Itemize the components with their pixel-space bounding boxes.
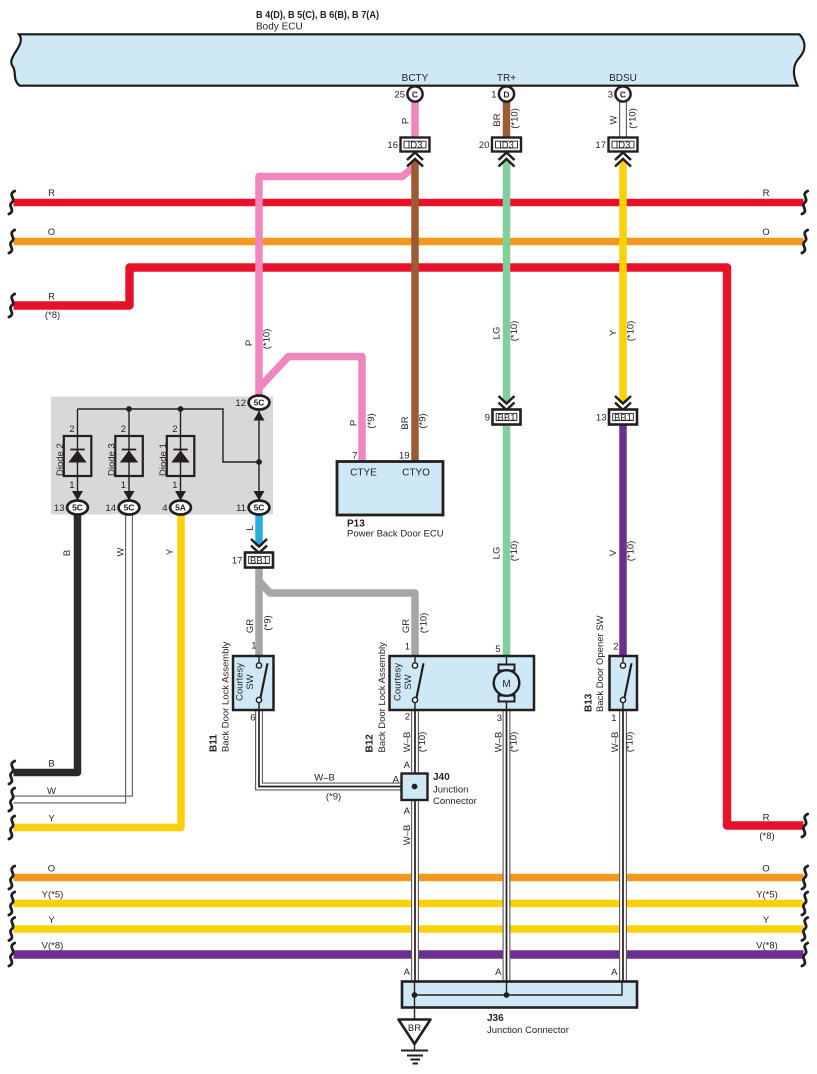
label O bottom right: [762, 864, 769, 875]
svg-text:9: 9: [485, 413, 490, 424]
wire W-B (*10) from B13 pin1 to J36: [620, 710, 627, 982]
arrow into connector 14-5C: [124, 491, 135, 501]
svg-text:(*10): (*10): [626, 541, 637, 562]
break symbol V(*8) left: [9, 943, 15, 966]
break symbol O bottom right: [802, 866, 808, 889]
svg-text:Connector: Connector: [433, 796, 477, 807]
svg-text:11: 11: [236, 503, 246, 514]
wire LG from ID3 pin20 to BB1 pin9: [503, 161, 511, 403]
break symbol Y(*5) right: [802, 892, 808, 915]
svg-text:GR: GR: [245, 619, 256, 633]
label P (*9) on branch to CTYE: [349, 413, 378, 428]
svg-text:(*9): (*9): [366, 413, 377, 428]
svg-text:1: 1: [172, 480, 177, 491]
label Y(*5) bottom right: [756, 890, 778, 901]
wire W-B (*10) from motor pin3 to J36: [503, 710, 510, 982]
wire W-B (*9) from B11 pin6 to J40: [256, 710, 402, 790]
arrow into connector 11-5C: [254, 491, 265, 501]
svg-text:Y: Y: [608, 329, 619, 336]
svg-text:M: M: [502, 679, 510, 690]
label BR (*9) on wire to CTYO: [400, 413, 429, 429]
connector 12 (5C): [235, 396, 269, 410]
break symbol O bus left: [9, 230, 15, 253]
wire LG from BB1 pin9 to motor pin5: [503, 425, 511, 658]
wire Y(*5) bus: [14, 900, 804, 908]
diode D1 (Diode 1): [158, 424, 194, 491]
svg-text:BR: BR: [408, 1023, 421, 1034]
svg-text:7: 7: [352, 451, 357, 462]
label Y on yellow riser: [165, 548, 176, 555]
connector 13 (5C): [54, 501, 88, 515]
svg-text:5C: 5C: [254, 398, 265, 408]
wire R bus (top): [14, 199, 804, 207]
svg-text:Junction: Junction: [433, 785, 468, 796]
wire L from connector 11-5C to BB1 pin17: [255, 513, 263, 546]
svg-text:J36: J36: [487, 1013, 504, 1024]
svg-text:W–B: W–B: [610, 732, 621, 753]
label GR (*10) right: [401, 613, 430, 634]
svg-text:D: D: [503, 89, 509, 99]
label LG (*10) lower: [492, 541, 521, 562]
label Y bottom right: [763, 915, 770, 926]
node A below J40: [404, 806, 411, 817]
svg-text:W: W: [609, 115, 620, 124]
wire W from connector 14-5C to left: [14, 512, 133, 803]
junction dot bus to connector column: [256, 459, 262, 465]
svg-text:R: R: [763, 188, 770, 199]
svg-text:J40: J40: [433, 772, 450, 783]
wire V from BB1 pin13 to B13 pin2: [619, 425, 627, 658]
diode D3 (Diode 3): [107, 424, 143, 491]
svg-text:A: A: [404, 967, 411, 978]
svg-text:O: O: [48, 864, 55, 875]
label P on BCTY stub: [401, 118, 412, 124]
label W-B below J40: [402, 825, 413, 846]
diode assembly enclosure (shaded): [51, 397, 273, 515]
svg-text:(*9): (*9): [263, 615, 274, 630]
label Y(*5) bottom left: [42, 890, 64, 901]
label W-B (*10) on B12 pin2 wire: [402, 732, 428, 753]
break symbol R(*8) right: [802, 814, 808, 837]
diode D2 (Diode 2): [55, 424, 91, 491]
svg-text:W–B: W–B: [402, 732, 413, 753]
svg-text:BR: BR: [492, 113, 503, 126]
label BR (*10) on TR+ stub: [492, 108, 521, 129]
break symbol B left: [9, 761, 15, 784]
svg-text:W–B: W–B: [402, 825, 413, 846]
svg-text:12: 12: [235, 398, 246, 409]
svg-text:Courtesy: Courtesy: [235, 663, 246, 701]
svg-text:5: 5: [495, 644, 500, 655]
svg-text:C: C: [620, 89, 626, 99]
break symbol W left: [9, 788, 15, 811]
svg-text:16: 16: [387, 140, 398, 151]
wire P stub BCTY to ID3: [411, 101, 419, 138]
svg-text:(*10): (*10): [417, 732, 428, 753]
svg-text:R: R: [763, 813, 770, 824]
label Y horizontal: [48, 814, 55, 825]
svg-text:2: 2: [172, 424, 177, 435]
svg-text:Courtesy: Courtesy: [393, 663, 404, 701]
label Y (*10) upper: [608, 321, 637, 342]
svg-text:(*9): (*9): [326, 792, 341, 803]
svg-text:R: R: [48, 188, 55, 199]
svg-text:LG: LG: [492, 547, 503, 560]
label B on black riser: [62, 550, 73, 556]
label V(*8) bottom right: [756, 941, 778, 952]
connector 11 (5C): [236, 501, 269, 515]
wire W stub BDSU to ID3: [620, 100, 627, 138]
wire W-B (*10) from B12 pin2 through J40 to J36: [412, 710, 419, 982]
svg-text:(*10): (*10): [509, 732, 520, 753]
svg-text:13: 13: [596, 413, 607, 424]
node BDSU pin 3 (C): [608, 73, 637, 102]
wire Y from ID3 pin17 to BB1 pin13: [619, 161, 627, 403]
svg-text:CTYE: CTYE: [350, 468, 377, 479]
wire V(*8) bus: [14, 950, 804, 959]
svg-text:ID3: ID3: [408, 140, 423, 151]
connector 14 (5C): [105, 501, 139, 515]
svg-text:(*10): (*10): [626, 321, 637, 342]
wire Y bus (bottom): [14, 925, 804, 933]
wire Y from connector 4-5A to left: [14, 512, 182, 828]
svg-text:(*8): (*8): [759, 831, 774, 842]
svg-text:W–B: W–B: [494, 732, 505, 753]
switch B13 Back Door Opener SW: [584, 615, 638, 724]
svg-text:4: 4: [162, 503, 167, 514]
label R right: [763, 188, 770, 199]
wire B from connector 13-5C to left: [14, 512, 78, 773]
svg-text:5C: 5C: [72, 503, 83, 513]
node A left of J40: [393, 775, 400, 786]
svg-text:20: 20: [479, 140, 490, 151]
svg-text:(*10): (*10): [510, 108, 521, 129]
svg-text:SW: SW: [403, 674, 414, 689]
svg-text:BDSU: BDSU: [609, 73, 637, 84]
svg-text:LG: LG: [492, 327, 503, 340]
svg-text:(*10): (*10): [262, 329, 273, 350]
svg-text:Y: Y: [763, 915, 770, 926]
svg-text:ID3: ID3: [616, 140, 631, 151]
svg-text:Y: Y: [48, 814, 55, 825]
break symbol V(*8) right: [802, 943, 808, 966]
svg-text:BCTY: BCTY: [402, 73, 429, 84]
svg-text:P: P: [244, 340, 255, 346]
label B horizontal: [48, 759, 54, 770]
svg-text:A: A: [495, 967, 502, 978]
svg-text:Diode 3: Diode 3: [107, 443, 118, 476]
svg-text:C: C: [412, 89, 418, 99]
svg-text:Back Door Lock Assembly: Back Door Lock Assembly: [377, 642, 388, 753]
arrow into connector 4-5A: [175, 491, 186, 501]
node A above J36 (right): [611, 967, 618, 978]
wire O bus (top): [14, 238, 804, 246]
svg-text:V(*8): V(*8): [756, 941, 778, 952]
svg-text:B13: B13: [584, 693, 595, 712]
label W (*10) on BDSU stub: [609, 108, 639, 129]
svg-text:Body ECU: Body ECU: [256, 22, 303, 33]
svg-text:13: 13: [54, 503, 65, 514]
svg-text:1: 1: [121, 480, 126, 491]
svg-text:(*10): (*10): [628, 108, 639, 129]
label V (*10): [608, 541, 637, 562]
svg-text:BR: BR: [400, 416, 411, 429]
svg-text:P: P: [401, 118, 412, 124]
ECU P13 Power Back Door ECU: [337, 451, 444, 540]
connector ID3 pin 17: [595, 138, 637, 167]
switch+motor B12 Back Door Lock Assembly: [365, 642, 535, 753]
svg-text:O: O: [48, 227, 55, 238]
svg-text:BB1: BB1: [614, 413, 632, 424]
svg-text:Power Back Door ECU: Power Back Door ECU: [347, 529, 444, 540]
svg-text:1: 1: [69, 480, 74, 491]
break symbol Y(*5) left: [9, 892, 15, 915]
label R (*8) right bottom: [759, 813, 774, 843]
svg-text:BB1: BB1: [498, 413, 516, 424]
svg-text:Y: Y: [165, 548, 176, 555]
svg-text:5A: 5A: [175, 503, 186, 513]
label LG (*10) upper: [492, 321, 521, 342]
svg-text:Diode 2: Diode 2: [55, 443, 66, 476]
junction dot diode bus / diode 3: [126, 406, 132, 412]
svg-text:(*10): (*10): [509, 541, 520, 562]
svg-text:B 4(D), B 5(C), B 6(B), B 7(A): B 4(D), B 5(C), B 6(B), B 7(A): [256, 10, 379, 21]
Body ECU B4(D) B5(C) B6(B) B7(A): [11, 10, 804, 86]
svg-text:O: O: [762, 227, 769, 238]
node A above J36 (left): [404, 967, 411, 978]
wire O bus (bottom): [14, 874, 804, 882]
label Y bottom left: [48, 915, 55, 926]
svg-text:1: 1: [491, 90, 496, 101]
label V(*8) bottom left: [42, 941, 64, 952]
junction dot diode bus / diode 1: [178, 406, 184, 412]
junction connector J36: [402, 982, 637, 1037]
break symbol R bus left: [9, 191, 15, 214]
svg-text:W: W: [47, 786, 56, 797]
motor M (power back door motor): [494, 644, 520, 724]
svg-text:L: L: [245, 525, 256, 530]
connector 4 (5A): [162, 501, 191, 515]
svg-text:BB1: BB1: [250, 556, 268, 567]
svg-text:2: 2: [613, 642, 618, 653]
break symbol Y bottom right: [802, 918, 808, 941]
break symbol R(*8) left: [9, 294, 15, 317]
svg-text:SW: SW: [245, 674, 256, 689]
node A above J36 (middle): [495, 967, 502, 978]
svg-text:1: 1: [251, 641, 256, 652]
switch B11 Back Door Lock Assembly Courtesy SW: [209, 641, 274, 753]
label L on cyan stub: [245, 525, 256, 530]
wire R (*8) main feed: [14, 268, 804, 826]
svg-text:Y(*5): Y(*5): [42, 890, 64, 901]
svg-text:Back Door Opener SW: Back Door Opener SW: [595, 615, 606, 712]
svg-text:V: V: [608, 549, 619, 556]
svg-text:(*8): (*8): [45, 310, 60, 321]
arrow into connector 12-5C: [254, 411, 265, 421]
svg-text:19: 19: [399, 451, 410, 462]
label W on white riser: [116, 547, 127, 556]
svg-text:W: W: [116, 547, 127, 556]
junction connector J40: [402, 772, 477, 807]
svg-text:V(*8): V(*8): [42, 941, 64, 952]
label W-B (*10) on motor pin3 wire: [494, 732, 520, 753]
svg-text:Y: Y: [48, 915, 55, 926]
diode assembly internal bus wiring: [78, 409, 260, 501]
connector ID3 pin 16: [387, 138, 429, 167]
label P (*10) on pink riser: [244, 329, 273, 350]
svg-text:5C: 5C: [254, 503, 265, 513]
break symbol O bus right: [802, 230, 808, 253]
svg-text:3: 3: [608, 90, 613, 101]
break symbol O bottom left: [9, 866, 15, 889]
ground (BR): [399, 1008, 431, 1064]
svg-text:R: R: [48, 292, 55, 303]
svg-text:O: O: [762, 864, 769, 875]
wire GR from BB1 pin17 to B11 pin1 and branch to B12 pin1: [259, 567, 415, 657]
node TR+ pin 1 (D): [491, 73, 516, 102]
svg-text:Back Door Lock Assembly: Back Door Lock Assembly: [221, 641, 232, 752]
wire P from ID3 pin16 to diode assembly (with branch): [259, 167, 415, 462]
svg-text:B11: B11: [209, 734, 220, 752]
arrow into connector 13-5C: [72, 491, 83, 501]
svg-text:P: P: [349, 420, 360, 426]
svg-text:(*10): (*10): [419, 613, 430, 634]
svg-text:B12: B12: [365, 734, 376, 753]
label R left: [48, 188, 55, 199]
label W horizontal: [47, 786, 56, 797]
wire BR from ID3 pin16 to P13 pin19: [411, 161, 419, 461]
svg-text:A: A: [393, 775, 400, 786]
svg-text:6: 6: [250, 713, 255, 724]
svg-text:14: 14: [105, 503, 116, 514]
svg-text:TR+: TR+: [497, 73, 516, 84]
svg-text:1: 1: [405, 642, 410, 653]
break symbol Y bottom left: [9, 918, 15, 941]
break symbol R bus right: [802, 191, 808, 214]
connector ID3 pin 20: [479, 138, 521, 167]
svg-text:Diode 1: Diode 1: [158, 443, 169, 476]
label GR (*9) left: [245, 615, 274, 633]
connector BB1 pin 13: [596, 396, 637, 425]
svg-text:B: B: [62, 550, 73, 556]
svg-text:A: A: [404, 760, 411, 771]
break symbol Y left: [9, 816, 15, 839]
svg-text:A: A: [611, 967, 618, 978]
wire BR stub TR+ to ID3: [503, 101, 511, 138]
svg-text:A: A: [404, 806, 411, 817]
svg-text:5C: 5C: [124, 503, 135, 513]
svg-text:2: 2: [405, 712, 410, 723]
svg-text:1: 1: [611, 713, 616, 724]
svg-text:25: 25: [394, 90, 405, 101]
connector BB1 pin 17: [232, 539, 273, 568]
node BCTY pin 25 (C): [394, 73, 428, 102]
svg-text:Y(*5): Y(*5): [756, 890, 778, 901]
label W-B (*10) on B13 pin1 wire: [610, 732, 636, 753]
label O left: [48, 227, 55, 238]
label O right: [762, 227, 769, 238]
svg-text:17: 17: [595, 140, 606, 151]
svg-text:3: 3: [497, 713, 502, 724]
svg-text:CTYO: CTYO: [402, 468, 430, 479]
label W-B (*9) on B11 pin6 run: [314, 773, 341, 803]
node A above J40: [404, 760, 411, 771]
svg-text:Junction Connector: Junction Connector: [487, 1025, 569, 1036]
label R (*8) left: [45, 292, 60, 322]
svg-text:17: 17: [232, 556, 243, 567]
svg-text:(*10): (*10): [625, 732, 636, 753]
svg-text:GR: GR: [401, 619, 412, 633]
svg-text:2: 2: [69, 424, 74, 435]
connector BB1 pin 9: [485, 396, 521, 425]
svg-text:ID3: ID3: [499, 140, 514, 151]
svg-text:B: B: [48, 759, 54, 770]
svg-text:W–B: W–B: [314, 773, 335, 784]
svg-text:(*10): (*10): [509, 321, 520, 342]
svg-text:(*9): (*9): [418, 413, 429, 428]
svg-text:2: 2: [121, 424, 126, 435]
label O bottom left: [48, 864, 55, 875]
